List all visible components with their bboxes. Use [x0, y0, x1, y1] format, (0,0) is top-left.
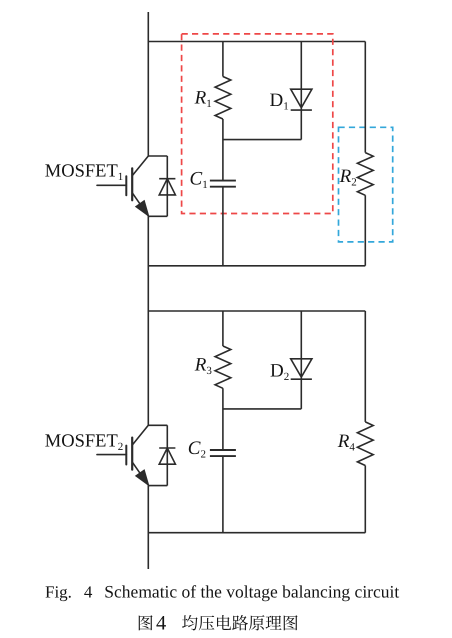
resistor R4 (zigzag) — [357, 422, 373, 466]
wire: right branch with resistor R2 — [364, 42, 366, 266]
freewheel diode of MOSFET2 — [159, 425, 175, 485]
svg-text:R3: R3 — [194, 354, 213, 377]
resistor R3 (zigzag) — [215, 346, 231, 388]
wire: left DC bus upper segment — [147, 12, 149, 156]
capacitor C1 — [210, 181, 236, 187]
wire: junction between R3 bottom and D2 cathode — [223, 408, 301, 410]
wire: top rail of cell 2 — [148, 310, 365, 312]
svg-text:MOSFET1: MOSFET1 — [45, 162, 124, 184]
transistor MOSFET2 (IGBT symbol) — [97, 425, 148, 485]
svg-text:Fig.: Fig. — [45, 582, 72, 601]
svg-text:R1: R1 — [194, 88, 212, 111]
wire: MOSFET1 emitter stub — [148, 215, 167, 217]
wire: bottom rail of cell 2 — [148, 532, 365, 534]
wire: D2 branch vertical — [300, 311, 302, 409]
svg-text:C2: C2 — [188, 438, 206, 461]
svg-text:R4: R4 — [337, 431, 356, 454]
wire: left DC bus lower segment — [147, 486, 149, 569]
wire: left DC bus middle segment — [147, 216, 149, 425]
blue dashed highlight box around R2 — [339, 127, 393, 242]
resistor R1 (zigzag) — [215, 77, 231, 120]
wire: MOSFET2 emitter stub — [148, 485, 167, 487]
diode D1 — [291, 89, 312, 110]
wire: junction between R1 bottom and D1 cathode — [223, 139, 301, 141]
wire: MOSFET2 collector stub — [148, 424, 167, 426]
wire: right branch with resistor R4 — [364, 311, 366, 533]
red dashed highlight box around R1/D1/C1 snubber — [182, 34, 333, 214]
resistor R2 (zigzag) — [357, 153, 373, 196]
transistor MOSFET1 (IGBT symbol) — [97, 156, 148, 216]
wire: D1 branch vertical — [300, 42, 302, 140]
wire: R3/C2 branch with resistor R3 — [222, 311, 224, 533]
svg-text:D1: D1 — [270, 90, 289, 113]
svg-text:4: 4 — [156, 613, 166, 635]
svg-text:MOSFET2: MOSFET2 — [45, 432, 124, 454]
svg-text:Schematic of the voltage balan: Schematic of the voltage balancing circu… — [104, 581, 399, 601]
wire: R1/C1 branch with resistor R1 — [222, 42, 224, 266]
wire: MOSFET1 collector stub — [148, 155, 167, 157]
freewheel diode of MOSFET1 — [159, 156, 175, 216]
svg-text:4: 4 — [84, 582, 93, 601]
wire: top rail of cell 1 — [148, 41, 365, 43]
caption (Chinese): 图4 均压电路原理图 — [139, 613, 298, 635]
svg-text:C1: C1 — [190, 169, 208, 192]
diode D2 — [291, 359, 312, 379]
svg-text:D2: D2 — [270, 361, 289, 384]
svg-text:R2: R2 — [339, 166, 357, 189]
capacitor C2 — [210, 450, 236, 456]
wire: bottom rail of cell 1 — [148, 265, 365, 267]
